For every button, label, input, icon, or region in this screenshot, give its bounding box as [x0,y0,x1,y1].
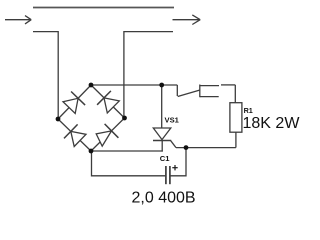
thyristor VS1 cathode wire [161,141,163,152]
thyristor VS1 gate diagonal [171,141,176,148]
thyristor VS1 triangle [153,128,171,140]
svg-text:R1: R1 [244,106,253,115]
node anode junction dot [159,83,164,88]
thyristor VS1 cathode bar [153,140,171,142]
svg-text:C1: C1 [160,154,170,163]
thyristor VS1 anode wire [161,85,163,128]
wire bridge minus down to capacitor [92,151,166,176]
arrow output right [173,15,201,25]
wire second rail left segment [33,32,58,119]
svg-text:18K 2W: 18K 2W [243,115,301,132]
capacitor plus sign [172,165,177,170]
wire capacitor right to gate node [170,148,186,176]
resistor R1 body [230,103,242,133]
node bottom junction dot [89,149,94,154]
svg-text:2,0 400В: 2,0 400В [132,189,196,206]
node right junction dot [122,116,127,121]
node left junction dot [56,117,61,122]
diode VD2 (right node to top node) [97,91,119,113]
wire switch to resistor top [234,85,236,103]
diode VD1 (left node to top node) [63,92,85,114]
wire bridge diagonal left-top [58,85,91,119]
node top junction dot [89,83,94,88]
wire top node to switch [91,84,177,86]
wire resistor bottom lead [235,132,237,147]
wire bottom rail (bridge minus to cathode) [91,150,163,152]
wire second rail right segment [124,32,173,118]
arrow input left [5,16,31,24]
capacitor C1 right plate [169,166,171,184]
switch SA1 [177,85,235,98]
node gate junction dot [184,145,189,150]
wire top rail [33,7,174,9]
wire bridge diagonal top-right [91,85,125,118]
wire bridge diagonal left-bottom [58,119,91,151]
capacitor C1 left plate [165,166,167,184]
wire bridge diagonal bottom-right [91,118,125,151]
diode VD3 (bottom node to left node) [64,124,86,146]
diode VD4 (bottom node to right node) [96,124,118,146]
svg-text:VS1: VS1 [165,116,180,125]
wire resistor bottom to gate node [176,147,236,149]
